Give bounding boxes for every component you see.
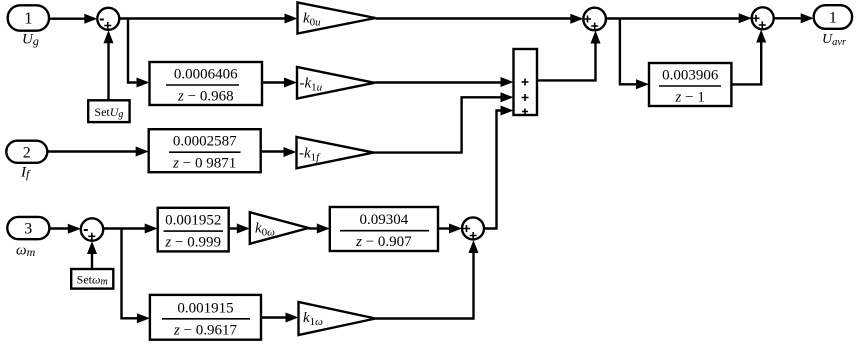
gain k0omega bbox=[250, 212, 309, 244]
wire G3 to gain k0omega bbox=[229, 224, 250, 234]
input port 1 bbox=[8, 5, 49, 30]
svg-text:0.001915: 0.001915 bbox=[177, 300, 233, 316]
wire adder output up to S2 bottom bbox=[537, 31, 601, 81]
summing junction S2 bbox=[583, 8, 606, 31]
adder sum block bbox=[514, 49, 538, 115]
wire G2 to gain -k1f bbox=[261, 147, 297, 157]
wire port3 to sum S4 bbox=[49, 224, 80, 234]
wire G5 output up to S3 bottom bbox=[731, 30, 766, 85]
input port 2 bbox=[6, 141, 47, 163]
wire SetUg up to S1 bottom bbox=[104, 30, 114, 100]
wire G4 to sum S5 bbox=[438, 224, 462, 234]
wire -k1f to adder input 2 bbox=[374, 92, 514, 152]
summing junction S5 bbox=[462, 217, 484, 239]
svg-text:1: 1 bbox=[24, 9, 33, 28]
wire branch from S2 output down to block G5 bbox=[620, 19, 649, 90]
svg-text:3: 3 bbox=[24, 221, 32, 238]
output port 1 bbox=[814, 5, 852, 29]
wire k0u to sum S2 bbox=[376, 14, 584, 24]
svg-text:z − 0.968: z − 0.968 bbox=[177, 89, 234, 105]
constant block SetUg bbox=[88, 100, 129, 122]
wire S2 to sum S3 bbox=[606, 13, 752, 23]
svg-text:0.0006406: 0.0006406 bbox=[174, 67, 238, 83]
label Uavr bbox=[822, 32, 847, 48]
label omega-m bbox=[16, 243, 36, 260]
svg-text:0.0002587: 0.0002587 bbox=[173, 134, 237, 150]
TF block G1 0.0006406/(z-0.968) bbox=[150, 62, 263, 105]
svg-text:z − 0.9617: z − 0.9617 bbox=[173, 322, 238, 338]
wire S1 output to gain k0u bbox=[119, 14, 297, 24]
wire k0omega to block G4 bbox=[309, 224, 330, 234]
TF block G3 0.001952/(z-0.999) bbox=[158, 208, 229, 252]
svg-text:2: 2 bbox=[23, 145, 31, 162]
label If bbox=[20, 165, 31, 182]
summing junction S4 bbox=[81, 218, 103, 240]
svg-text:z − 0.999: z − 0.999 bbox=[164, 235, 221, 251]
wire Setomega up to S4 bottom bbox=[87, 241, 97, 269]
TF block G5 0.003906/(z-1) bbox=[649, 63, 731, 106]
summing junction S3 bbox=[752, 7, 774, 29]
gain -k1f bbox=[297, 137, 374, 168]
wire branch from S1 output down to block G1 bbox=[128, 19, 150, 88]
svg-text:z − 0.907: z − 0.907 bbox=[355, 234, 412, 250]
gain k1omega bbox=[299, 302, 376, 335]
summing junction S1 bbox=[97, 8, 119, 30]
TF block G2 0.0002587/(z-0.9871) bbox=[149, 129, 261, 172]
wire S5 output up to adder input 3 bbox=[484, 106, 514, 229]
wire S3 to output port bbox=[774, 13, 814, 23]
gain k0u bbox=[298, 3, 376, 34]
svg-text:z − 0 9871: z − 0 9871 bbox=[172, 156, 236, 172]
svg-text:Ug: Ug bbox=[22, 32, 39, 49]
svg-text:ωm: ωm bbox=[16, 243, 36, 260]
svg-text:0.001952: 0.001952 bbox=[165, 213, 221, 229]
svg-text:1: 1 bbox=[829, 10, 837, 27]
TF block G6 0.001915/(z-0.9617) bbox=[150, 295, 261, 340]
input port 3 bbox=[7, 217, 49, 239]
TF block G4 0.09304/(z-0.907) bbox=[330, 207, 438, 251]
wire G6 to gain k1omega bbox=[261, 313, 299, 323]
wire k1omega up to S5 bottom bbox=[376, 240, 479, 319]
wire branch from S4 output down to block G6 bbox=[122, 229, 150, 324]
constant block Setomega bbox=[71, 269, 113, 289]
wire port2 to block G2 bbox=[47, 147, 148, 157]
label Ug bbox=[22, 32, 39, 49]
wire G1 to gain -k1u bbox=[262, 78, 297, 88]
svg-text:0.09304: 0.09304 bbox=[360, 212, 409, 228]
gain -k1u bbox=[297, 67, 375, 99]
wire port1 to sum S1 bbox=[49, 14, 97, 24]
wire S4 to block G3 bbox=[103, 224, 158, 234]
wire -k1u to adder input 1 bbox=[375, 77, 514, 87]
svg-text:z − 1: z − 1 bbox=[675, 90, 705, 106]
svg-text:0.003906: 0.003906 bbox=[662, 68, 719, 84]
